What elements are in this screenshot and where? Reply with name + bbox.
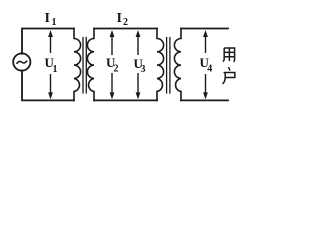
svg-text:2: 2	[114, 64, 119, 75]
svg-text:I: I	[45, 11, 50, 26]
svg-text:4: 4	[207, 64, 212, 75]
wire top middle loop	[94, 28, 157, 30]
transformer T2 primary winding	[157, 29, 164, 101]
voltage arrow U4	[203, 30, 208, 99]
svg-text:2: 2	[123, 17, 128, 28]
svg-text:I: I	[117, 11, 122, 26]
label I2	[117, 11, 129, 28]
wire bottom middle loop	[94, 99, 157, 101]
label U4	[200, 55, 213, 75]
voltage arrow U3	[136, 30, 141, 99]
label U1	[45, 55, 58, 75]
wire top right loop	[181, 28, 228, 30]
label U2	[106, 55, 119, 75]
voltage arrow U1	[48, 30, 53, 99]
AC source G1	[13, 53, 30, 70]
wire bottom left loop	[22, 70, 74, 100]
label I1	[45, 11, 57, 28]
svg-text:1: 1	[52, 17, 57, 28]
label user (Chinese 用)	[223, 48, 235, 62]
label U3	[134, 56, 146, 75]
svg-text:1: 1	[53, 64, 58, 75]
AC source sine symbol	[17, 61, 27, 63]
svg-text:3: 3	[141, 64, 146, 75]
transformer T1 core	[83, 38, 86, 94]
wire bottom right loop	[181, 99, 228, 101]
transformer T2 secondary winding	[174, 29, 181, 101]
voltage arrow U2	[110, 30, 115, 99]
transformer T1 secondary winding	[87, 29, 94, 101]
transformer T1 primary winding	[74, 29, 81, 101]
label user (Chinese 户)	[223, 67, 235, 84]
transformer T2 core	[167, 38, 170, 94]
wire top left loop	[22, 29, 74, 54]
